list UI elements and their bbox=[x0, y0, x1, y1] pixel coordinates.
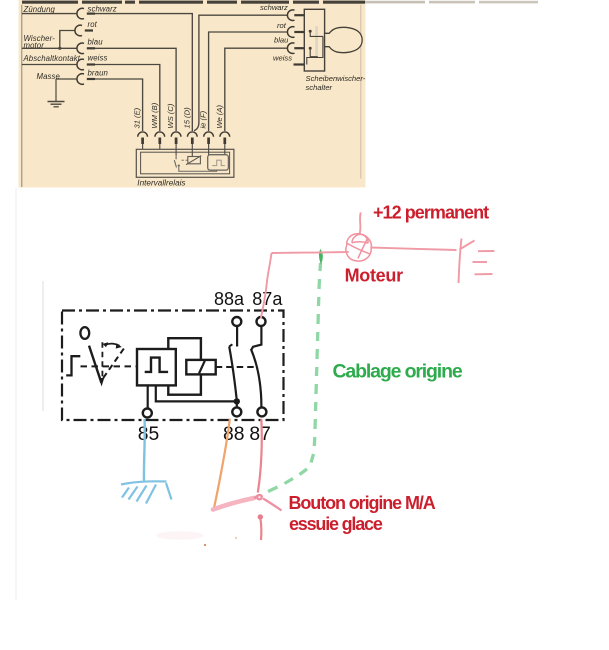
thick pink jumper wire bbox=[213, 498, 254, 510]
wiper switch box U1 bbox=[304, 9, 324, 71]
motor symbol bbox=[346, 234, 371, 261]
pink tail right bbox=[263, 499, 282, 511]
pink wire motor to right connector bbox=[370, 248, 456, 251]
faint page edge line bbox=[15, 188, 17, 600]
speck orange bbox=[204, 544, 206, 546]
switch connector blau bbox=[287, 43, 304, 54]
svg-text:+12 permanent: +12 permanent bbox=[373, 203, 489, 223]
interval relay box bbox=[136, 149, 234, 177]
pulse symbol bbox=[145, 358, 168, 372]
switch connector rot bbox=[287, 27, 304, 38]
relay terminal labels (rotated) bbox=[133, 102, 224, 128]
coil actuation dashed link bbox=[216, 366, 256, 368]
relay terminal 15(D) bbox=[187, 132, 197, 157]
wire: switch rot feed to relay ie(F) bbox=[209, 32, 288, 131]
scan left border line bbox=[21, 5, 23, 187]
relay terminal We(A) bbox=[220, 132, 230, 155]
relay terminal WS(C) bbox=[171, 132, 181, 155]
blue wire from 85 bbox=[143, 419, 146, 481]
switch inner contact dots bbox=[309, 30, 312, 33]
wire pulse box to 85 bbox=[147, 385, 149, 409]
relay terminal ie(F) bbox=[204, 132, 214, 155]
switch knob bbox=[325, 27, 363, 52]
pink knot bbox=[255, 495, 262, 499]
relay terminal 31(E) bbox=[138, 132, 148, 150]
svg-text:Bouton origine M/A: Bouton origine M/A bbox=[289, 493, 436, 513]
svg-text:88a: 88a bbox=[214, 289, 245, 309]
wire: switch schwarz feed joining 15(D) bbox=[194, 15, 287, 130]
wire: switch blau feed to relay We(A) bbox=[225, 48, 288, 131]
relay module rectangle bbox=[168, 338, 201, 395]
wire: braun row to relay 31(E) bbox=[95, 79, 143, 131]
switch-side labels bbox=[260, 3, 366, 92]
relay outline box (dash-dot) bbox=[62, 311, 284, 421]
wire: Zuendung schwarz row bbox=[22, 13, 77, 15]
left scan labels bbox=[23, 5, 117, 82]
relay internal contact bbox=[174, 155, 189, 168]
terminal 85 circle bbox=[143, 409, 152, 418]
svg-text:87: 87 bbox=[249, 424, 270, 445]
wire 88a fixed bbox=[236, 326, 238, 347]
faint eraser smudge bbox=[156, 531, 204, 539]
beige scan background bbox=[19, 0, 366, 188]
green dashed cablage origine line bbox=[268, 263, 321, 492]
wire: blau row to relay WS(C) bbox=[95, 48, 176, 131]
wire: braun row from ground bbox=[56, 78, 77, 80]
pulse generator box bbox=[137, 349, 176, 385]
scan right inner border line bbox=[360, 5, 362, 179]
switch connector schwarz bbox=[287, 10, 304, 21]
svg-text:87a: 87a bbox=[252, 289, 283, 309]
terminal 87a circle bbox=[257, 317, 266, 326]
contact blade 87a-87 bbox=[251, 349, 262, 408]
pink wire from 87 down bbox=[258, 419, 262, 493]
relay internal coil bbox=[186, 156, 201, 165]
left connector rot bbox=[75, 25, 93, 36]
svg-text:Cablage origine: Cablage origine bbox=[333, 360, 463, 382]
junction rot/blau bbox=[58, 47, 61, 50]
wire: rot stub and branch down to blau row bbox=[60, 31, 75, 49]
timer step symbol bbox=[66, 356, 80, 375]
left connector schwarz bbox=[77, 8, 95, 19]
wire dot to 88 bbox=[236, 401, 238, 407]
timer pointer V bbox=[89, 342, 124, 386]
wire: blau row bbox=[22, 47, 77, 49]
wire: weiss row to relay WM(B) bbox=[95, 65, 160, 132]
scan top caption strip bbox=[22, 1, 538, 4]
svg-text:essuie glace: essuie glace bbox=[289, 514, 383, 534]
wire 87a fixed bbox=[252, 326, 262, 350]
pink connector comb bbox=[459, 239, 495, 284]
blade 88a tick bbox=[229, 344, 232, 346]
left connector braun bbox=[77, 74, 95, 85]
switch slider bar bbox=[315, 26, 318, 56]
pink stub with dot bbox=[258, 514, 263, 519]
switch connector weiss pin bbox=[294, 63, 305, 65]
junction dot 88 bbox=[234, 398, 240, 404]
timer operation dashed line bbox=[81, 365, 138, 367]
terminal 88 circle bbox=[232, 407, 241, 416]
timer dial 0 mark bbox=[80, 327, 89, 339]
relay internal pulse unit bbox=[208, 155, 229, 170]
green junction blob bbox=[320, 251, 322, 263]
relay internal bottom wire bbox=[179, 167, 217, 171]
faint scan artifact line bbox=[42, 281, 44, 411]
pink wire corner down to 87a bbox=[261, 253, 272, 319]
pink wire +12 to motor bbox=[360, 213, 361, 235]
terminal 87 circle bbox=[257, 407, 266, 416]
wire: schwarz row to relay bus bbox=[95, 14, 192, 131]
blue ground sketch bbox=[121, 481, 172, 503]
left connector weiss bbox=[77, 59, 95, 70]
contact blade 88a-88 bbox=[229, 347, 236, 399]
wire pulse box to junction dot bbox=[156, 385, 237, 401]
svg-text:Moteur: Moteur bbox=[345, 265, 403, 285]
wire: weiss row bbox=[22, 64, 77, 66]
terminal 88a circle bbox=[232, 317, 241, 326]
ground (Masse) bbox=[48, 79, 65, 107]
coil diagonal bbox=[199, 361, 205, 374]
left connector blau bbox=[77, 43, 95, 54]
switch inner wiring bbox=[307, 31, 323, 64]
relay terminal WM(B) bbox=[155, 132, 165, 150]
svg-text:85: 85 bbox=[138, 424, 159, 445]
coil box K1 bbox=[186, 360, 215, 375]
orange wire from 88 bbox=[214, 419, 230, 508]
pink wire motor to left corner bbox=[272, 252, 349, 253]
